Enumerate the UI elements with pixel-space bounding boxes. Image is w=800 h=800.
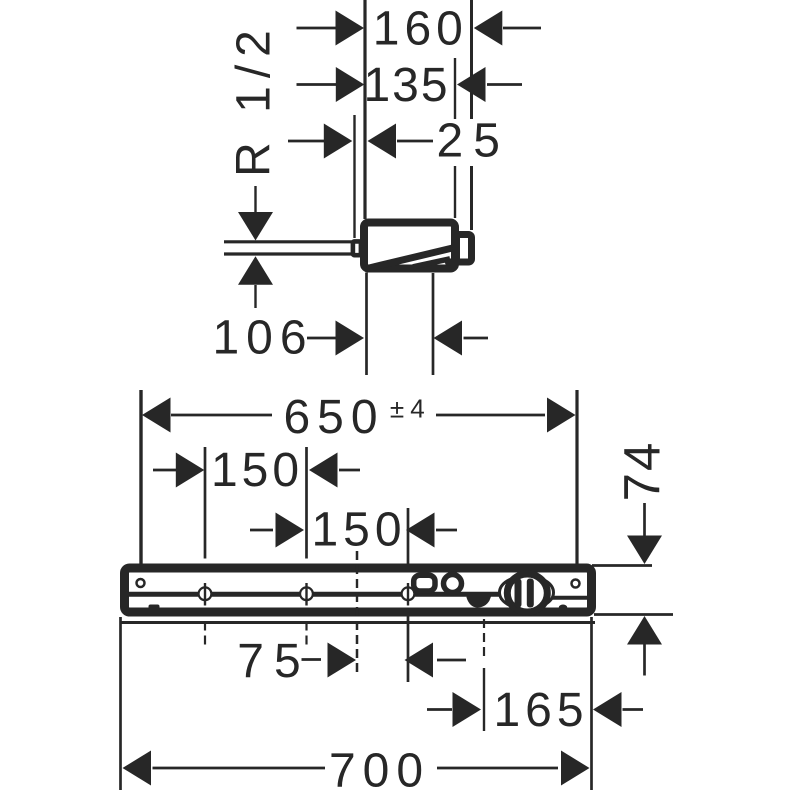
svg-text:160: 160 [373,3,468,56]
svg-text:135: 135 [363,59,449,112]
svg-text:R 1/2: R 1/2 [228,22,281,177]
svg-text:±4: ±4 [390,394,431,424]
svg-text:700: 700 [329,745,430,798]
svg-text:75: 75 [237,635,310,688]
svg-text:165: 165 [493,684,588,737]
svg-text:106: 106 [212,312,313,365]
svg-text:150: 150 [311,504,406,557]
svg-text:150: 150 [211,444,303,497]
svg-text:74: 74 [614,441,671,502]
svg-text:650: 650 [283,391,384,444]
svg-text:25: 25 [437,115,510,168]
